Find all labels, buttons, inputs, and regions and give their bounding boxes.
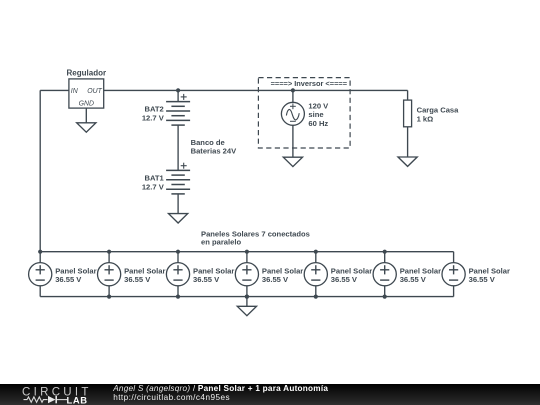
svg-text:Carga Casa1 kΩ: Carga Casa1 kΩ	[417, 106, 460, 124]
wire top rail to AC source	[292, 90, 294, 102]
svg-text:OUT: OUT	[87, 88, 102, 95]
ac source V1 120 V sine 60 Hz	[281, 102, 304, 125]
solar panel source V8 Panel Solar 7	[442, 263, 465, 286]
ground under panel bus	[237, 306, 256, 315]
wire panel 1 bottom stub	[39, 286, 41, 297]
panel 7 polarity marks	[449, 265, 458, 280]
wire AC source to ground	[292, 125, 294, 157]
solar panel source V6 Panel Solar 5	[304, 263, 327, 286]
junction top bus	[38, 250, 42, 254]
wire panel 7 bottom stub	[453, 286, 455, 297]
svg-text:====> Inversor <====: ====> Inversor <====	[271, 79, 348, 88]
panel 4 polarity marks	[242, 265, 251, 280]
BAT1 polarity +	[181, 163, 187, 169]
footer credit text	[113, 384, 328, 403]
panel 6 polarity marks	[380, 265, 389, 280]
junction bottom bus	[107, 295, 111, 299]
wire top panel bus	[40, 251, 453, 253]
svg-text:BAT1: BAT1	[145, 174, 165, 183]
ground under regulator	[77, 123, 96, 132]
panel 1 polarity marks	[36, 265, 45, 280]
wire top rail to BAT2	[177, 90, 179, 101]
battery BAT2	[166, 102, 190, 126]
ac source polarity -	[290, 120, 296, 122]
wire panel 6 top stub	[384, 252, 386, 263]
ground under resistor	[398, 157, 417, 166]
junction bottom bus	[383, 295, 387, 299]
wire panel 5 top stub	[315, 252, 317, 263]
junction bottom bus	[245, 295, 249, 299]
svg-text:IN: IN	[71, 88, 78, 95]
svg-text:BAT2: BAT2	[145, 105, 164, 114]
junction top rail / inverter source	[291, 88, 295, 92]
wire left rail down to panel bus	[39, 90, 41, 251]
ac source polarity +	[290, 103, 296, 109]
logo diode	[48, 396, 56, 403]
wire resistor to ground	[407, 127, 409, 157]
wire panel 2 bottom stub	[108, 286, 110, 297]
wire regulator OUT to load (top rail)	[104, 89, 408, 91]
svg-text:Paneles Solares 7 conectadosen: Paneles Solares 7 conectadosen paralelo	[201, 229, 310, 246]
svg-text:GND: GND	[79, 101, 94, 108]
regulator "Regulador"	[69, 79, 104, 108]
svg-text:12.7 V: 12.7 V	[142, 182, 165, 191]
footer bar	[0, 384, 540, 405]
junction top bus	[176, 250, 180, 254]
wire BAT2 to BAT1	[177, 125, 179, 170]
battery BAT1	[166, 170, 190, 194]
wire panel 4 top stub	[246, 252, 248, 263]
junction bottom bus	[314, 295, 318, 299]
panel 5 polarity marks	[311, 265, 320, 280]
resistor R1 Carga Casa	[404, 100, 412, 127]
wire top rail down to resistor	[407, 90, 409, 100]
junction bottom bus	[176, 295, 180, 299]
panel 3 polarity marks	[173, 265, 182, 280]
ground under BAT1	[169, 214, 188, 223]
panel 2 polarity marks	[105, 265, 114, 280]
wire regulator GND down	[85, 108, 87, 123]
junction top bus	[107, 250, 111, 254]
wire panel 5 bottom stub	[315, 286, 317, 297]
junction bottom bus / ground	[245, 295, 249, 299]
wire panel 4 bottom stub	[246, 286, 248, 297]
wire regulator IN to left rail	[40, 89, 69, 91]
svg-text:36.55 V: 36.55 V	[262, 275, 289, 284]
wire bottom bus to ground	[246, 297, 248, 307]
svg-text:Regulador: Regulador	[67, 68, 107, 77]
solar panel source V5 Panel Solar 4	[235, 263, 258, 286]
junction top bus	[245, 250, 249, 254]
junction top bus	[314, 250, 318, 254]
svg-text:36.55 V: 36.55 V	[331, 275, 358, 284]
svg-text:12.7 V: 12.7 V	[142, 114, 165, 123]
logo resistor zigzag	[24, 397, 48, 402]
svg-text:36.55 V: 36.55 V	[193, 275, 220, 284]
wire panel 1 top stub	[39, 252, 41, 263]
svg-text:Banco deBaterias 24V: Banco deBaterias 24V	[191, 138, 238, 156]
solar panel source V3 Panel Solar 2	[98, 263, 121, 286]
BAT2 polarity +	[181, 94, 187, 100]
junction top bus	[383, 250, 387, 254]
wire panel 2 top stub	[108, 252, 110, 263]
svg-text:120 Vsine60 Hz: 120 Vsine60 Hz	[308, 101, 329, 127]
svg-text:36.55 V: 36.55 V	[55, 275, 82, 284]
solar panel source V4 Panel Solar 3	[166, 263, 189, 286]
svg-text:36.55 V: 36.55 V	[124, 275, 151, 284]
wire panel 3 bottom stub	[177, 286, 179, 297]
wire panel 6 bottom stub	[384, 286, 386, 297]
junction top rail / BAT2	[176, 88, 180, 92]
ground under AC source	[283, 157, 302, 166]
svg-text:LAB: LAB	[67, 394, 88, 405]
solar panel source V7 Panel Solar 6	[373, 263, 396, 286]
wire BAT1 to ground	[177, 194, 179, 214]
wire panel 3 top stub	[177, 252, 179, 263]
wire bottom panel bus	[40, 296, 453, 298]
CircuitLab logo	[0, 384, 100, 405]
wire panel 7 top stub	[453, 252, 455, 263]
solar panel source V2 Panel Solar 1	[29, 263, 52, 286]
ac source sine wave	[286, 109, 299, 119]
inverter enclosure (dashed)	[258, 78, 350, 148]
svg-text:36.55 V: 36.55 V	[400, 275, 427, 284]
svg-text:36.55 V: 36.55 V	[469, 275, 496, 284]
